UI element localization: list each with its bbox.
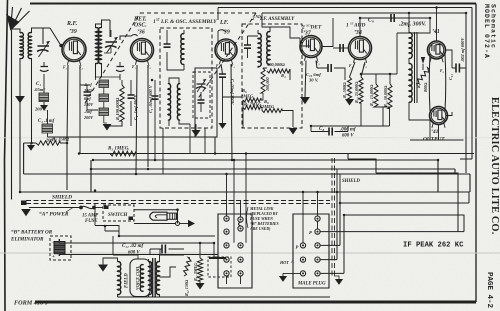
label RF [66, 21, 78, 35]
coil T2 primary [96, 28, 99, 64]
capacitor C7 [219, 74, 242, 123]
label HOT A [279, 259, 294, 265]
field coil [118, 262, 121, 297]
terminal m7 [315, 271, 320, 276]
capacitor stack C2b [99, 94, 109, 102]
wire V3 pins [221, 64, 232, 160]
output transformer left coil [149, 262, 152, 295]
wire antenna lead [11, 30, 13, 200]
audio transformer core [415, 32, 418, 103]
gang line 1 [85, 13, 256, 103]
label R7 [244, 102, 262, 107]
wire V5 pins [350, 62, 366, 77]
wire audio xfmr [397, 13, 430, 140]
wire nest row1 [320, 231, 464, 233]
wire nest a [348, 154, 458, 232]
wire v5 coupling [333, 44, 348, 52]
tube V3 IF 39 [215, 39, 237, 64]
ground shield [334, 276, 343, 285]
wire stack bottom [104, 88, 107, 124]
ground box1 [192, 124, 201, 137]
tube V4 2nd DET 37 [300, 36, 322, 61]
grid cap wire V1 [50, 28, 63, 47]
page border left [5, 0, 8, 311]
label R12v [383, 85, 388, 107]
wire female feeds2 [119, 154, 246, 258]
label F2 capsule [440, 69, 445, 73]
wire v3 grid [218, 8, 226, 45]
label R1 [52, 137, 69, 143]
capacitor C5b [116, 62, 125, 80]
capacitor C6 [128, 80, 135, 126]
male plug box [293, 214, 329, 288]
arrow audio [421, 57, 425, 70]
ground R1 [27, 143, 35, 151]
wire right bus 1 [465, 13, 467, 173]
metal link dashed box [208, 257, 231, 277]
label R5 [265, 76, 270, 91]
arrow lamp [188, 220, 195, 227]
shield line vertical [332, 158, 335, 276]
terminal m3 [315, 243, 320, 248]
wire t1 top [12, 28, 51, 44]
audio transformer secondary [409, 64, 412, 103]
female socket box [218, 214, 252, 288]
tube V6 41 [428, 41, 446, 62]
ground A power [21, 201, 31, 217]
coil box1 top [181, 30, 184, 70]
wire V2 pins down [136, 65, 148, 174]
wire v4 plate [322, 18, 333, 47]
label DET OSC [133, 17, 147, 36]
wire bus y174 [24, 143, 470, 192]
wire trim2 [104, 30, 111, 53]
terminal m2 [300, 243, 305, 248]
label R11v [369, 84, 374, 106]
output transformer core [153, 258, 156, 297]
terminal f5 [238, 257, 243, 262]
capacitor C3 interstage [80, 85, 98, 110]
label R2 [115, 97, 120, 120]
margin text Schematic [490, 4, 497, 49]
scan fold line 2 [0, 137, 500, 139]
label C10 [306, 72, 321, 83]
coil box2 b [267, 32, 270, 65]
wire female bottom [227, 276, 241, 284]
coil box1 lower b [177, 84, 180, 121]
ground speaker [98, 258, 118, 272]
coil box1 lower a [168, 84, 171, 121]
ground C7 [218, 123, 226, 129]
resistor R1 350 [24, 141, 67, 145]
label R3 [108, 147, 129, 152]
label B BATTERY [10, 230, 53, 243]
wire box2 lower [243, 100, 293, 128]
label V2 pins [132, 65, 152, 69]
capacitor in box1 [164, 36, 171, 60]
label MALE PLUG [297, 282, 326, 287]
wire male feeds [303, 192, 318, 243]
assembly box 1 [160, 28, 212, 128]
wire y74 feed [361, 33, 397, 84]
label C9 [368, 18, 426, 28]
label C12 [122, 244, 144, 256]
resistor R11 15000 [374, 84, 378, 107]
wire box2 top [258, 13, 300, 38]
wire nest d [320, 215, 464, 273]
tube V1 RF 39 [62, 38, 86, 65]
margin text MODEL 072-A [483, 4, 490, 59]
label R6 [240, 88, 254, 99]
terminal m4 [300, 257, 305, 262]
coil T1 primary [20, 33, 23, 59]
label P2 [296, 245, 299, 250]
label SWITCH [108, 213, 129, 218]
label stack1 [83, 82, 94, 93]
label V5 pins [349, 64, 368, 68]
coil T2 secondary [98, 28, 101, 64]
voice coil frame [130, 259, 150, 297]
resistor R11 3MEG [197, 243, 202, 283]
capacitor box2 input [244, 36, 258, 58]
label b battery polarity [52, 241, 55, 260]
voice coil [140, 265, 143, 292]
osc section box [193, 68, 217, 137]
tube V5 1st AUD 38 [349, 37, 372, 63]
label V3 pins [216, 64, 236, 68]
label A POWER [39, 208, 73, 218]
tube V7 41 output [430, 107, 448, 128]
label 1st IF OSC ASSEMBLY [153, 18, 217, 25]
tube capsule [429, 54, 446, 111]
label V4 pins [300, 61, 321, 65]
wire top bus b [262, 12, 466, 14]
wire bus y160 [93, 160, 438, 192]
label stack3 [83, 109, 94, 120]
resistor R8 [262, 109, 282, 113]
resistor R7 [243, 106, 261, 110]
capacitor C4 [42, 124, 53, 133]
wire c1 chain [43, 78, 45, 105]
ground box2 [289, 128, 298, 135]
terminal f8 [238, 271, 243, 276]
terminal m1 [315, 229, 320, 234]
terminal f6 [224, 257, 229, 262]
wire v5 top [360, 18, 430, 37]
wire bus y153 [79, 153, 474, 155]
metal link [239, 222, 241, 226]
wire bus y167 [91, 160, 455, 192]
label P1 [309, 230, 312, 235]
capacitor C8 [329, 128, 332, 136]
label R9 800 [416, 82, 428, 92]
label C1 [34, 82, 47, 112]
scan fold line [0, 252, 500, 254]
audio transformer primary [409, 33, 412, 59]
scan noise texture [0, 0, 1, 1]
wire v7 bottom [410, 125, 464, 141]
resistor R9 800 [416, 68, 429, 84]
resistor R5 vert [261, 68, 265, 100]
wire y137 bus [48, 137, 218, 154]
ground stage2 [103, 124, 112, 131]
label 2ND DET [301, 24, 322, 37]
label R10v [354, 81, 359, 103]
capacitor C1 [39, 93, 49, 102]
label R8 [261, 99, 275, 109]
wire speaker top rect [95, 204, 138, 256]
wire V1 pin2 down [79, 65, 81, 154]
wire switch to lamp [134, 208, 179, 223]
wire a power [29, 207, 81, 209]
label SHIELD left [52, 195, 72, 201]
tuning capacitor stage1 [37, 41, 50, 57]
wire lamp out [180, 223, 189, 225]
wire output xfmr [118, 255, 331, 297]
label C5 [148, 84, 153, 113]
margin text PAGE 4-2 [485, 272, 493, 309]
resistor R12 150 [184, 257, 192, 276]
wire b to female [150, 249, 160, 255]
wire nest b [20, 192, 469, 203]
resistor R10 25000 [359, 77, 363, 103]
wire y126 bus [311, 103, 390, 126]
wire box1 lower [169, 78, 190, 126]
shield line horizontal [26, 201, 330, 204]
terminal f1 [224, 229, 229, 234]
resistor R3 1MEG [110, 151, 136, 156]
label stack2 [84, 96, 94, 107]
label C6 [133, 93, 138, 120]
ground C1 [40, 105, 48, 111]
terminal m6 [300, 271, 305, 276]
label R12 150 [184, 279, 189, 296]
terminal f0 [224, 216, 229, 221]
label R4 500000 [267, 62, 286, 78]
label VOICE COIL [135, 265, 140, 290]
label V1 pins [63, 66, 84, 70]
wire box2 out [300, 38, 311, 46]
ground R11 [196, 283, 205, 290]
tuning capacitor stage2 [105, 37, 118, 53]
b battery box [50, 236, 71, 260]
resistor R9 500 vert [348, 77, 352, 99]
capacitor stack C2c [99, 108, 109, 116]
wire C10 [317, 68, 345, 80]
capacitor stack C2 [99, 80, 109, 88]
lamp terminal [176, 222, 180, 226]
terminal f7 [224, 271, 229, 276]
trimmer cap stage1 [40, 62, 49, 78]
capacitor C10 [328, 64, 331, 72]
page border right [475, 4, 477, 303]
b battery resistor [54, 239, 65, 256]
wire nest c [320, 203, 469, 245]
resistor R2 100000 [107, 80, 124, 126]
arrow R9 [345, 99, 354, 106]
label C7 [230, 79, 235, 106]
label FIELD [125, 273, 130, 288]
resistor R4 [267, 69, 290, 73]
label C11 [448, 37, 465, 80]
ground V4 cathode [300, 97, 310, 104]
terminal f2b [238, 226, 243, 231]
label metal link [247, 207, 279, 231]
label R9v [342, 82, 347, 98]
resistor R12 50000 [388, 84, 392, 109]
terminal m5 [315, 257, 320, 262]
label 2nd IF ASSEMBLY [251, 15, 295, 22]
ground antenna coil [15, 96, 25, 103]
label 1ST AUD [346, 22, 365, 37]
output transformer right coil [156, 262, 159, 295]
wire v6 plate [446, 50, 453, 116]
switch box [103, 205, 134, 221]
label IF 39 [219, 20, 230, 36]
wire box2 mid [258, 66, 290, 80]
assembly box 2 [242, 24, 302, 128]
label SHIELD right [342, 179, 360, 184]
tube V2 DET OSC 36 [131, 39, 154, 65]
pilot lamp [150, 212, 177, 220]
wire box1 mid [167, 30, 184, 70]
label FORM 416-J [14, 300, 49, 307]
terminal f2 [238, 217, 243, 222]
capacitor osc [198, 92, 205, 112]
label R11 3MEG [193, 263, 198, 281]
label 41 OUTPUT [423, 129, 445, 143]
trimmer osc [196, 79, 206, 92]
wire V1 pin1 down [67, 65, 68, 190]
label fuse [82, 214, 98, 225]
label C8 [319, 126, 357, 139]
wire male gnd [279, 273, 301, 282]
wire c5 [152, 80, 159, 160]
wire voice top [137, 255, 139, 259]
terminal m0 [315, 216, 320, 221]
wire c12 [150, 249, 184, 255]
label C4 [38, 119, 58, 143]
wire top bus a [218, 7, 472, 9]
wire v6 top [436, 8, 438, 42]
wire misc drops [163, 124, 205, 174]
wire nest feeds [337, 169, 340, 203]
terminal f3 [238, 243, 243, 248]
wire stage2 mid [96, 77, 121, 80]
wire C4 [47, 110, 49, 137]
capacitor C12 [162, 245, 165, 254]
wire V4 pins [305, 61, 317, 98]
capacitor C9 [391, 14, 394, 22]
page border top [30, 2, 476, 4]
wire b battery out [59, 239, 218, 256]
label IF PEAK 262 KC [403, 242, 464, 250]
wire c8 line [311, 126, 348, 132]
fuse [79, 206, 103, 210]
capacitor C11 [452, 64, 466, 73]
page border bottom [35, 300, 476, 303]
antenna [6, 7, 30, 31]
margin text ELECTRIC AUTO LITE CO [489, 97, 500, 235]
terminal f4 [224, 243, 229, 248]
wire nest row3 [320, 192, 337, 260]
label 41 top [432, 29, 440, 35]
wire t2 top [96, 20, 138, 40]
coil T1 secondary [28, 33, 31, 59]
coil box2 a [258, 34, 261, 67]
wire t2 bottom [96, 63, 102, 78]
resistor R6 [243, 98, 261, 102]
wire t1 bottom [20, 58, 32, 192]
wire right bus 2 [460, 8, 472, 160]
